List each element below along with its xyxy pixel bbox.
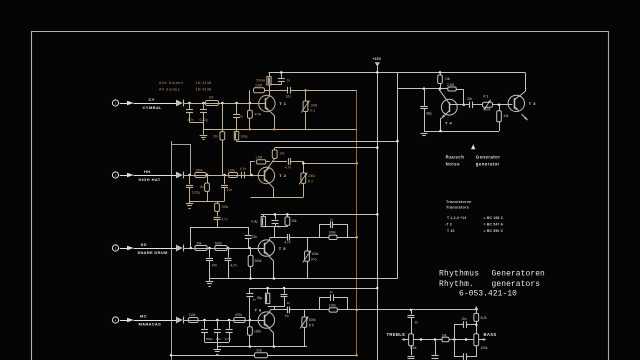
resistor 470k series stage4	[234, 318, 245, 323]
svg-text:1M: 1M	[213, 135, 218, 139]
svg-text:51k: 51k	[257, 349, 263, 353]
junction +15V bus dots	[376, 71, 379, 74]
svg-text:HH: HH	[144, 169, 151, 174]
svg-text:68p: 68p	[426, 111, 432, 115]
svg-text:1n: 1n	[287, 78, 291, 82]
svg-text:100k: 100k	[310, 103, 317, 107]
svg-text:500μ: 500μ	[206, 337, 213, 341]
trimmer R2 100k stage2	[303, 161, 305, 173]
wire bus y=147.6	[275, 147, 378, 149]
capacitor 4,7n stage1	[189, 103, 191, 109]
svg-text:Rausch: Rausch	[446, 155, 465, 160]
svg-text:Alle Dioden: Alle Dioden	[159, 81, 183, 85]
resistor 300k stage3	[250, 248, 252, 255]
input 4 arrow	[127, 318, 134, 322]
svg-text:10k: 10k	[291, 219, 297, 223]
svg-text:= BC 168 C: = BC 168 C	[484, 216, 504, 220]
wire stage3 collector node	[263, 226, 287, 228]
input 2 arrow	[127, 173, 134, 177]
capacitor 68p noise	[424, 89, 426, 106]
wire stage2 main	[183, 175, 264, 177]
svg-text:1n: 1n	[287, 301, 291, 305]
svg-text:4,7n: 4,7n	[284, 241, 290, 245]
junction bottom bus / x171	[170, 354, 173, 357]
svg-text:T 6: T 6	[255, 307, 262, 312]
capacitor 47n shunt stage3	[209, 248, 211, 258]
wire T2 collector	[265, 159, 275, 173]
input 3 arrow	[127, 246, 134, 250]
svg-text:100k: 100k	[329, 231, 336, 235]
wire input 3 to diode	[134, 248, 177, 250]
wire T2 emitter to rail	[269, 183, 274, 198]
wire +15V vertical bus x=377	[377, 72, 379, 360]
wire stage4 top rail y=288	[250, 288, 377, 290]
svg-text:20k: 20k	[197, 241, 203, 245]
diode D1	[176, 100, 183, 107]
capacitor 22n noise coupling	[469, 102, 471, 109]
wire mix bus y=310	[304, 309, 329, 311]
svg-text:52mH: 52mH	[256, 79, 265, 83]
wire input 1 to diode	[134, 103, 177, 105]
wire T1 emitter to rail	[269, 111, 274, 130]
junction stage3 dots	[190, 247, 193, 250]
junction stage2 dots	[188, 174, 191, 177]
diode D2	[176, 172, 183, 179]
wire T3 emitter open	[522, 114, 528, 120]
wire cap tie stage2	[190, 201, 225, 203]
wire stage4 collector node	[268, 306, 284, 308]
svg-text:10n: 10n	[461, 317, 467, 321]
wire stage3 bottom rail y=278.5	[210, 278, 398, 280]
ground stage2	[189, 201, 191, 203]
wire T6 emitter to rail	[269, 328, 274, 347]
svg-text:47n: 47n	[212, 263, 218, 267]
transistor T5	[258, 240, 274, 256]
feedback loop stage3	[320, 225, 331, 238]
capacitor 10n bass bottom	[455, 340, 464, 357]
transistor T6	[258, 312, 274, 328]
capacitor 1n treble feed	[410, 309, 413, 312]
diode D4	[176, 317, 183, 324]
svg-text:= BC 547 A: = BC 547 A	[484, 222, 504, 226]
wire stage3 main	[183, 248, 264, 250]
svg-text:150k: 150k	[196, 169, 203, 173]
trimmer R3 noise	[483, 102, 493, 107]
wire R3 to T3 base	[493, 104, 513, 106]
svg-text:110k: 110k	[189, 313, 196, 317]
capacitor 0,4u stage3	[263, 214, 265, 216]
svg-text:2,2M: 2,2M	[447, 83, 454, 87]
svg-text:HIGH HAT: HIGH HAT	[139, 177, 161, 182]
svg-text:T 4: T 4	[445, 120, 452, 125]
resistor 10k stage2	[274, 148, 276, 150]
resistor 100k loop stage3	[329, 235, 337, 239]
svg-text:120k: 120k	[254, 329, 261, 333]
resistor 10k stage3	[287, 214, 289, 217]
capacitor 1n loop stage4	[330, 294, 332, 301]
wire input 4 to diode	[134, 320, 177, 322]
transistor T1	[259, 95, 275, 111]
wire stage3 top rail y=214	[261, 214, 377, 216]
resistor 1M series stage1	[206, 101, 219, 106]
capacitor 10n shunt stage2	[224, 175, 226, 184]
capacitor 4,7n decay chain stage2	[214, 217, 221, 219]
resistor 20k series stage3	[195, 246, 207, 251]
svg-text:Generator: Generator	[476, 155, 501, 160]
resistor 1M vertical stage1-2 link	[222, 103, 224, 132]
wire cap tie stage1	[190, 122, 204, 124]
junction stage4 rail dots	[249, 345, 252, 348]
svg-text:0,4μ: 0,4μ	[251, 219, 257, 223]
capacitor 4,7n output stage3	[287, 234, 289, 241]
svg-text:1M: 1M	[209, 95, 214, 99]
wire cap tie stage4	[205, 342, 230, 344]
trimmer R5 100k stage4	[304, 310, 306, 317]
wire stage3 bus to loop	[307, 237, 329, 239]
trimmer R1 100k stage1	[304, 89, 307, 92]
svg-text:MC: MC	[140, 313, 147, 318]
svg-text:1,5M: 1,5M	[255, 156, 262, 160]
junction stage4 dots	[203, 319, 206, 322]
svg-text:4,7n: 4,7n	[225, 337, 231, 341]
svg-text:All diodes: All diodes	[159, 87, 180, 91]
svg-text:1n: 1n	[239, 114, 243, 118]
potentiometer BASS 100k	[474, 334, 479, 346]
junction x397 dots	[396, 140, 399, 143]
resistor 470k stage1	[249, 90, 251, 110]
svg-text:150k: 150k	[221, 205, 228, 209]
resistor 150k series stage2	[195, 173, 206, 178]
wire stage1 main	[183, 103, 265, 105]
svg-text:0,22μ: 0,22μ	[200, 118, 208, 122]
capacitor 0,22u stage2	[189, 175, 191, 184]
junction bottom bus / orange bus	[355, 354, 358, 357]
junction noise branch dots	[423, 87, 426, 90]
svg-text:1N 4148: 1N 4148	[196, 87, 212, 91]
svg-text:-T 3: -T 3	[445, 222, 452, 226]
resistor 110k series stage4	[188, 318, 198, 323]
wire stage1 ground rail y=129	[203, 129, 357, 131]
svg-text:100k: 100k	[481, 346, 488, 350]
wire jog x=171 to x=190	[171, 145, 191, 176]
wire input 2 to diode	[134, 175, 177, 177]
resistor 510k series stage3	[215, 246, 227, 251]
svg-text:Rhythm.: Rhythm.	[439, 280, 474, 289]
capacitor 4,7n shunt stage4	[229, 320, 231, 329]
input 2 terminal	[112, 172, 118, 178]
svg-text:1N 4148: 1N 4148	[196, 81, 212, 85]
svg-text:10k: 10k	[503, 114, 509, 118]
svg-text:= BC 550 C: = BC 550 C	[484, 229, 504, 233]
capacitor 1n shunt stage1	[236, 103, 238, 114]
wire T6 collector	[269, 310, 270, 313]
svg-text:T 1: T 1	[279, 101, 286, 106]
diode D3	[176, 245, 183, 252]
svg-text:T 2: T 2	[279, 173, 286, 178]
border frame right	[608, 31, 610, 360]
svg-text:4,7n: 4,7n	[187, 118, 193, 122]
wire noise branch y=88	[398, 88, 425, 90]
resistor 3,3M stage1	[254, 88, 265, 93]
wire long vertical x=171	[171, 141, 173, 360]
svg-text:R 5: R 5	[309, 324, 314, 328]
resistor 51k on bottom bus	[255, 353, 268, 358]
svg-text:470k: 470k	[235, 313, 242, 317]
svg-text:T 5: T 5	[279, 246, 286, 251]
resistor 1M shunt stage2	[207, 175, 209, 183]
capacitor 25u stage4	[267, 288, 269, 293]
svg-text:100μ: 100μ	[240, 135, 247, 139]
resistor 150k decay chain stage2	[217, 201, 219, 203]
junction orange bus dots	[356, 162, 359, 165]
svg-text:T 3: T 3	[529, 101, 536, 106]
svg-text:10k: 10k	[445, 77, 451, 81]
svg-text:1n: 1n	[330, 290, 334, 294]
svg-text:510k: 510k	[215, 241, 222, 245]
junction stage1 rail dots	[249, 128, 252, 131]
capacitor 1n top stage1	[281, 72, 283, 78]
capacitor 10n coupling stage1	[270, 90, 287, 92]
transistor T4 (mirrored)	[441, 99, 457, 115]
wire stage2 output y=163	[303, 163, 357, 165]
svg-text:Transistoren: Transistoren	[446, 200, 472, 204]
capacitor 4,7n coupling stage2	[241, 172, 243, 179]
svg-text:Noise: Noise	[446, 161, 461, 166]
svg-text:generator: generator	[476, 161, 500, 166]
capacitor 1n stage4	[284, 288, 286, 294]
svg-text:R 1: R 1	[310, 109, 315, 113]
input 1 terminal	[112, 100, 118, 106]
svg-text:generators: generators	[492, 280, 541, 289]
wire tone main y=339.5	[414, 339, 443, 341]
transistor T3	[508, 95, 524, 111]
feedback loop stage4	[320, 298, 331, 310]
ground stage4	[217, 347, 219, 350]
junction stage4 top dots	[266, 287, 269, 290]
wire +15V rail horizontal y=72	[269, 72, 526, 74]
resistor 10k tone	[442, 337, 449, 342]
junction stage3 top dots	[274, 213, 277, 216]
svg-text:6-053.421-10: 6-053.421-10	[459, 290, 517, 299]
junction bass loop top	[475, 323, 478, 326]
wire bus y=141	[237, 141, 398, 143]
ground stage3	[209, 279, 211, 282]
capacitor 4,7n shunt stage3	[228, 248, 230, 258]
ground stage1	[203, 129, 205, 134]
svg-text:R 2: R 2	[308, 180, 313, 184]
capacitor 100u stage1	[236, 129, 238, 131]
wire vertical bus x=397	[397, 72, 399, 278]
svg-text:+15V: +15V	[372, 57, 381, 61]
svg-text:Generatoren: Generatoren	[492, 269, 546, 278]
svg-text:102k: 102k	[228, 169, 235, 173]
svg-text:4,7n: 4,7n	[240, 167, 246, 171]
resistor 10k noise out	[499, 105, 501, 111]
capacitor 0,22u stage1	[203, 103, 205, 109]
input 1 arrow	[127, 101, 134, 105]
svg-text:Transistors: Transistors	[446, 206, 469, 210]
transistor T2	[258, 167, 274, 183]
svg-text:300k: 300k	[255, 259, 262, 263]
svg-text:10n: 10n	[286, 95, 292, 99]
junction stage1 dots	[188, 102, 191, 105]
wire treble pot bottom cap	[411, 346, 413, 355]
border frame top	[32, 31, 608, 33]
svg-text:1n: 1n	[253, 297, 257, 301]
svg-text:3,3M: 3,3M	[255, 83, 262, 87]
svg-text:MARACAS: MARACAS	[139, 321, 162, 326]
svg-text:1M: 1M	[199, 185, 204, 189]
wire stage4 main	[183, 320, 264, 322]
ground noise gen	[421, 133, 428, 135]
svg-text:4,7n: 4,7n	[285, 165, 291, 169]
svg-text:Rhythmus: Rhythmus	[439, 269, 479, 278]
resistor 8,2k tone	[476, 310, 478, 314]
wire input 1	[120, 103, 127, 105]
svg-text:SNARE DRUM: SNARE DRUM	[138, 250, 168, 255]
wire bottom bus y=355	[171, 355, 255, 357]
capacitor 2n stage3	[275, 214, 277, 219]
svg-text:22n: 22n	[467, 97, 473, 101]
resistor 2,2M noise	[448, 87, 456, 91]
resistor 1,5M stage2	[257, 160, 266, 164]
svg-text:10n: 10n	[227, 188, 233, 192]
svg-text:CYMBAL: CYMBAL	[143, 105, 163, 110]
resistor 102k series stage2	[228, 173, 237, 178]
potentiometer TREBLE 100k	[409, 334, 414, 346]
capacitor 22n shunt stage4	[217, 320, 219, 329]
noise generator pointer	[471, 144, 475, 149]
wire T4 base	[450, 104, 470, 106]
svg-text:100k: 100k	[410, 346, 417, 350]
wire T3 collector	[519, 72, 526, 96]
input 3 terminal	[112, 245, 118, 251]
svg-text:25μ: 25μ	[257, 296, 263, 300]
capacitor 1n output stage4	[287, 307, 289, 314]
svg-text:T 1,2,4 ÷14: T 1,2,4 ÷14	[447, 216, 466, 220]
svg-text:1n: 1n	[415, 321, 419, 325]
svg-text:8,2k: 8,2k	[481, 316, 487, 320]
svg-text:100k: 100k	[329, 303, 336, 307]
svg-text:470k: 470k	[254, 112, 261, 116]
svg-text:4,7n: 4,7n	[230, 263, 236, 267]
resistor 100k loop stage4	[329, 308, 337, 312]
wire noise gen bottom rail	[424, 131, 499, 133]
svg-text:SD: SD	[141, 242, 147, 247]
svg-text:22n: 22n	[252, 235, 258, 239]
wire noise branch y=88.8 extension	[424, 88, 448, 90]
svg-text:TREBLE: TREBLE	[387, 332, 406, 337]
svg-text:22n: 22n	[216, 337, 221, 341]
svg-text:100k: 100k	[308, 174, 315, 178]
wire mix bus vertical x=357 (orange)	[356, 90, 358, 356]
wire input 2	[120, 175, 127, 177]
capacitor shunt tone mid	[435, 340, 437, 355]
wire stage2 emitter rail y=197	[251, 197, 304, 199]
capacitor 4,7n output stage2	[288, 158, 290, 165]
svg-text:100k: 100k	[309, 318, 316, 322]
capacitor 22n trigger stage3	[245, 235, 252, 237]
svg-text:10k: 10k	[441, 333, 447, 337]
wire T5 emitter to rail	[269, 256, 274, 279]
svg-text:CY: CY	[149, 97, 155, 102]
wire input 3	[120, 248, 127, 250]
capacitor 100u shunt stage4	[204, 320, 206, 329]
wire T1 collector	[269, 85, 271, 95]
svg-text:1n: 1n	[330, 217, 334, 221]
input 4 terminal	[112, 317, 118, 323]
svg-text:1n: 1n	[285, 314, 289, 318]
capacitor 10n bass top	[455, 325, 464, 340]
wire T5 collector	[269, 237, 270, 240]
resistor 10k noise	[439, 71, 442, 74]
capacitor 1n loop stage3	[330, 221, 332, 228]
wire 2,2M to base node	[463, 89, 465, 105]
wire stage3 trigger loop	[191, 228, 249, 249]
inductor 52mH stage1	[269, 72, 271, 76]
wire stage4 emitter rail	[217, 346, 307, 348]
+15V supply arrow	[375, 62, 380, 66]
svg-text:100k: 100k	[311, 252, 318, 256]
wire input 4	[120, 320, 127, 322]
svg-text:BASS: BASS	[484, 332, 497, 337]
svg-text:R 3: R 3	[483, 95, 488, 99]
svg-text:R 6: R 6	[311, 258, 316, 262]
capacitor 1n riser stage4	[249, 297, 251, 320]
svg-text:10k: 10k	[279, 152, 285, 156]
trimmer R6 100k stage3	[307, 237, 309, 251]
svg-text:T 10: T 10	[447, 229, 455, 233]
junction stage3 rail dots	[273, 277, 276, 280]
svg-text:500k: 500k	[484, 108, 491, 112]
svg-text:0,22μ: 0,22μ	[192, 191, 200, 195]
resistor 120k stage4	[249, 320, 251, 327]
arrow mix bus end	[474, 306, 478, 310]
border frame left	[31, 31, 33, 360]
svg-text:4,7n: 4,7n	[221, 218, 227, 222]
